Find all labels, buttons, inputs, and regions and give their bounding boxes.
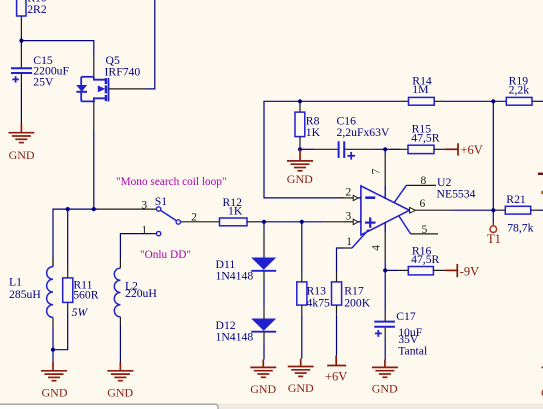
channel segments [105, 78, 107, 101]
diode D11 1N4148 [216, 222, 277, 283]
ground (under C17) [372, 360, 398, 378]
arrow into channel [98, 86, 106, 93]
resistor R10 (top, cut off) [17, 0, 47, 37]
wire R14 to R19 [444, 100, 506, 102]
coil bus wire [53, 209, 98, 267]
wire L1 to gnd node [52, 327, 54, 350]
power +6V (bottom bar) [327, 356, 346, 366]
svg-text:GND: GND [287, 172, 313, 186]
svg-text:7: 7 [371, 168, 383, 174]
ground (under R13) [288, 359, 314, 377]
Q5 source pin [93, 101, 95, 130]
source lead [81, 98, 106, 101]
capacitor C17 [374, 270, 428, 357]
svg-text:78,7k: 78,7k [507, 221, 533, 234]
resistor R12 [220, 196, 248, 226]
svg-text:5W: 5W [72, 306, 89, 319]
power -9V bar [445, 264, 457, 277]
svg-text:"Onlu DD": "Onlu DD" [140, 249, 191, 261]
resistor R21 [497, 193, 539, 234]
resistor R16 [385, 245, 445, 275]
svg-text:"Mono search coil loop": "Mono search coil loop" [116, 176, 227, 188]
node A junction [19, 39, 23, 43]
junction R11 tap [66, 207, 70, 211]
wire Q5 source down to coil bus [93, 130, 95, 209]
svg-text:25V: 25V [33, 76, 54, 89]
wire D11 to D12 [263, 271, 265, 281]
svg-text:4k75: 4k75 [307, 296, 331, 309]
transistor Q2 ... actually transistor Q5 IRF740 [76, 54, 140, 102]
svg-text:GND: GND [288, 381, 314, 395]
wire R13 to ground [301, 315, 303, 359]
junction pin4/R16/C17 [383, 268, 387, 272]
svg-text:1K: 1K [306, 126, 321, 139]
body diode [77, 85, 87, 91]
svg-text:1N4148: 1N4148 [216, 270, 254, 283]
svg-text:8: 8 [421, 175, 427, 187]
pin 8 lead [394, 185, 406, 202]
svg-text:T1: T1 [487, 232, 501, 246]
junction pin7 / C16 / R15 [383, 147, 387, 151]
svg-text:2,2uFx63V: 2,2uFx63V [337, 126, 390, 139]
wire R12 to op-amp pin3 [247, 221, 260, 223]
wire to ground [52, 350, 54, 362]
S1 pin 1 lead [150, 233, 156, 235]
svg-text:S1: S1 [155, 195, 168, 208]
top net wire to R14 [300, 100, 400, 102]
body diode branch [80, 77, 82, 86]
S1 pin 2 lead [181, 221, 220, 223]
switch S1 [141, 195, 197, 237]
junction Q5 source tap [92, 207, 96, 211]
power symbol (right edge, cut off) [538, 173, 543, 175]
svg-text:+6V: +6V [325, 369, 347, 383]
gate bar [108, 78, 110, 102]
wire S1 pin1 to L2 [120, 234, 150, 258]
svg-text:C17: C17 [396, 310, 416, 323]
svg-text:NE5534: NE5534 [437, 187, 476, 200]
junction D11 tap [262, 220, 266, 224]
wire R11 to gnd node [53, 312, 68, 350]
capacitor C16 [300, 115, 390, 160]
resistor R8 [295, 101, 321, 149]
junction R19/vertical [491, 99, 495, 103]
ground (under L2) [107, 362, 133, 381]
svg-text:1: 1 [346, 236, 352, 248]
ground (under R8) [287, 149, 313, 171]
svg-text:L1: L1 [9, 276, 22, 289]
svg-text:GND: GND [9, 148, 35, 162]
ground (under L1) [41, 362, 67, 381]
ground (under C15) [8, 124, 34, 143]
svg-text:285uH: 285uH [9, 288, 41, 301]
pin 7 lead [384, 149, 386, 156]
pin 5 lead [399, 216, 411, 234]
svg-text:3: 3 [141, 199, 147, 211]
pin 1 lead [344, 247, 352, 249]
bottom scrollbar strip [0, 404, 543, 409]
pin 2 lead [338, 197, 353, 199]
svg-text:IRF740: IRF740 [105, 65, 141, 78]
resistor R14 [400, 74, 444, 105]
svg-text:R21: R21 [506, 193, 526, 206]
svg-text:1N4148: 1N4148 [216, 331, 254, 344]
inductor L2 [114, 258, 157, 327]
drain lead [81, 76, 94, 78]
svg-text:+6V: +6V [461, 143, 483, 157]
svg-text:2: 2 [346, 186, 352, 198]
svg-text:1K: 1K [228, 205, 243, 218]
svg-text:6: 6 [420, 198, 426, 210]
resistor R15 [390, 123, 445, 154]
svg-text:47,5R: 47,5R [411, 253, 439, 266]
resistor R13 [297, 222, 330, 315]
test point T1 [487, 210, 501, 246]
wire R10 to C15/Q5 node [20, 37, 22, 41]
Q5 drain pin [93, 55, 95, 77]
junction output/feedback [491, 208, 495, 212]
svg-text:2R2: 2R2 [27, 3, 47, 16]
svg-text:5: 5 [422, 224, 428, 236]
wire R21 to right edge [539, 209, 543, 211]
inductor L1 [9, 257, 53, 328]
ground (under D12) [250, 360, 276, 378]
wire C16 to R15 [373, 148, 400, 150]
wire C17 to ground [384, 337, 386, 359]
diode D12 1N4148 [216, 308, 277, 344]
resistor R19 [506, 74, 540, 105]
svg-text:Tantal: Tantal [398, 344, 428, 357]
op-amp U1 ... op-amp U2 NE5534 [361, 176, 476, 235]
junction R8 top [298, 99, 302, 103]
wire C15 to GND [20, 84, 22, 125]
Q5 gate pin [108, 88, 145, 90]
svg-text:1: 1 [141, 224, 147, 236]
junction R13 tap [300, 220, 304, 224]
svg-text:220uH: 220uH [125, 287, 157, 300]
svg-text:GND: GND [250, 382, 276, 396]
ground (right edge, cut off) [542, 366, 543, 368]
pin 3 lead [344, 221, 353, 223]
pin 4 lead [384, 223, 386, 232]
svg-text:GND: GND [372, 382, 398, 396]
svg-text:4: 4 [371, 245, 383, 251]
wire R19 to right edge [540, 100, 543, 102]
wire vertical feedback right [492, 101, 494, 210]
svg-text:-9V: -9V [460, 265, 479, 279]
pin 6 output [410, 207, 416, 213]
wire L2 to ground [119, 327, 121, 363]
wire R17 to +6V [336, 315, 338, 356]
svg-text:560R: 560R [73, 289, 99, 302]
wire output to R21 [452, 209, 497, 211]
capacitor C15 [11, 41, 70, 89]
svg-text:200K: 200K [344, 296, 371, 309]
junction R8/C16 [298, 147, 302, 151]
wire node A to Q5 drain [21, 41, 93, 55]
resistor R11 [63, 209, 99, 319]
resistor R17 [332, 272, 371, 315]
svg-text:1M: 1M [412, 83, 429, 96]
junction L1/R11 [51, 348, 55, 352]
wire gate to top edge [145, 0, 155, 89]
svg-text:47,5R: 47,5R [411, 132, 439, 145]
svg-text:GND: GND [42, 386, 68, 400]
wire D12 to ground [263, 332, 265, 342]
svg-text:2,2k: 2,2k [509, 84, 530, 97]
svg-text:3: 3 [346, 211, 352, 223]
wire R17 up to op-amp pin1 lead [337, 248, 345, 272]
svg-text:GND: GND [107, 386, 133, 400]
power +6V (right bar) [445, 143, 458, 155]
feedback box wire (pin2 loop) [264, 101, 344, 198]
